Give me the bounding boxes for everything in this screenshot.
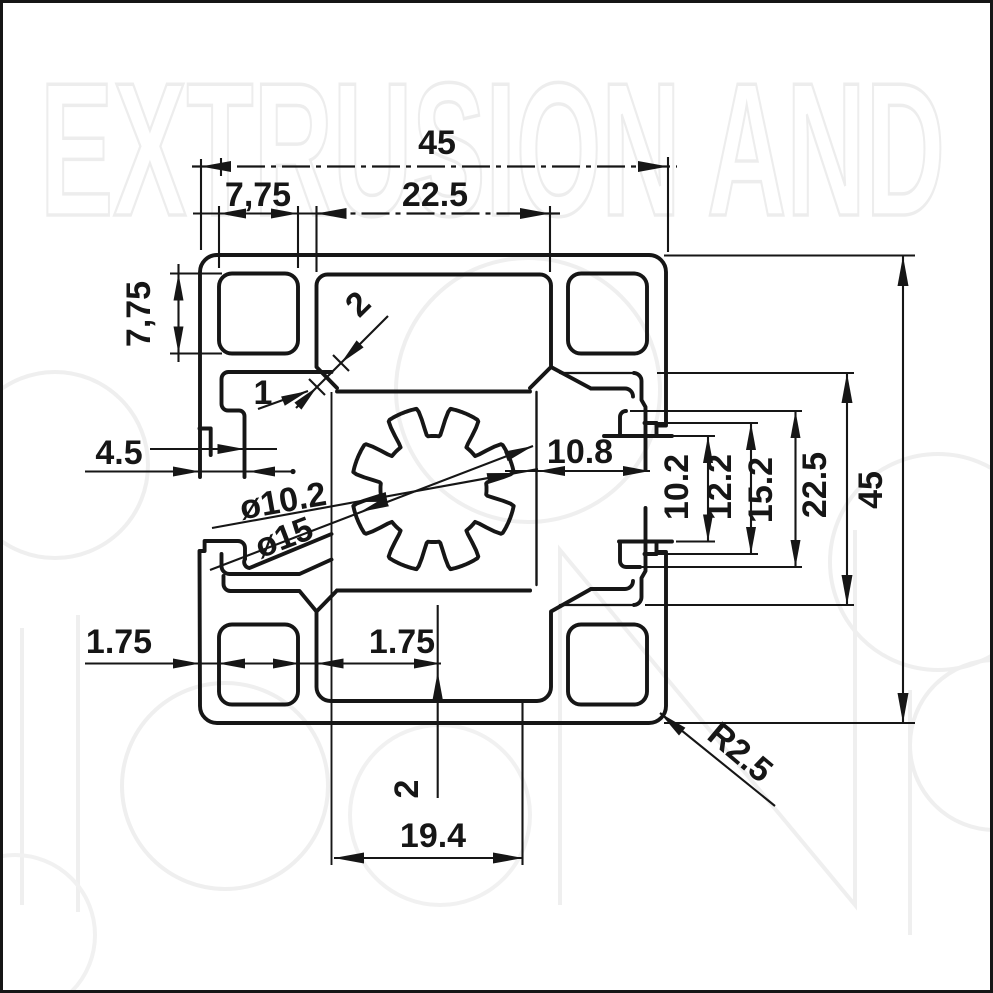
top-right core hole <box>568 274 647 354</box>
svg-text:45: 45 <box>852 471 890 509</box>
bottom-left core hole <box>219 625 298 705</box>
web wall right of gear <box>535 392 537 585</box>
cavity floor / web line <box>337 390 530 394</box>
dim 45 right <box>902 256 904 723</box>
svg-text:1.75: 1.75 <box>369 623 435 661</box>
dim 1 chamfer <box>258 391 308 409</box>
profile outer contour: top edge, right edge upper <box>217 255 666 436</box>
dim R2.5 leader <box>660 713 775 806</box>
left slot undercut lower boundary <box>222 554 332 574</box>
right slot mouth bottom lip line <box>619 542 672 555</box>
svg-text:4.5: 4.5 <box>95 434 142 472</box>
left slot undercut ramp <box>244 534 331 568</box>
svg-text:2: 2 <box>388 780 426 799</box>
dim 4.5 <box>150 448 277 450</box>
dim 7,75 top <box>193 212 316 214</box>
bottom-right core hole <box>568 625 647 705</box>
svg-text:10.8: 10.8 <box>547 433 613 471</box>
profile outer contour: left edge upper + top-left corner <box>200 255 217 477</box>
dim 15.2 right <box>794 411 796 567</box>
dim 7,75 left vertical <box>177 264 179 362</box>
top-left core hole <box>219 274 298 354</box>
right slot mouth top lip line <box>604 434 672 438</box>
dim 22.5 top <box>317 212 561 214</box>
dim 2 chamfer <box>296 316 388 408</box>
dim 2 bottom vertical <box>437 605 439 798</box>
dim 22.5 right <box>846 373 848 605</box>
right slot mouth upper wall <box>620 411 626 436</box>
svg-text:15.2: 15.2 <box>742 457 780 523</box>
bottom web line <box>337 589 530 593</box>
dim 10.8 <box>505 470 650 472</box>
dim dia10.2 leader <box>212 469 538 528</box>
bottom middle cavity <box>317 589 592 701</box>
svg-text:19.4: 19.4 <box>400 817 466 855</box>
dim 1.75 bottom <box>85 662 441 664</box>
dim 12.2 right <box>750 423 752 554</box>
svg-text:7,75: 7,75 <box>225 176 291 214</box>
dim 19.4 <box>334 857 523 859</box>
svg-text:12.2: 12.2 <box>701 454 739 520</box>
right slot mouth lower wall <box>620 543 640 568</box>
dim 10.2 right <box>707 436 709 542</box>
left slot hook outer face <box>224 576 317 612</box>
svg-text:22.5: 22.5 <box>402 176 468 214</box>
profile outer contour: right edge lower, bottom edge, left edge lower <box>200 541 667 723</box>
svg-text:45: 45 <box>418 124 456 162</box>
right cavity bottom edge <box>591 508 646 605</box>
right slot upper step <box>645 423 657 426</box>
svg-text:1: 1 <box>254 374 273 412</box>
top middle cavity <box>317 275 592 389</box>
svg-text:1.75: 1.75 <box>86 623 152 661</box>
svg-text:10.2: 10.2 <box>658 454 696 520</box>
left slot mouth top lip <box>200 429 211 456</box>
right cavity top edge <box>591 373 646 470</box>
svg-text:EXTRUSION AND: EXTRUSION AND <box>40 44 945 256</box>
svg-text:22.5: 22.5 <box>796 452 834 518</box>
central gear bore <box>353 409 513 569</box>
dim dia15 leader <box>210 446 533 570</box>
dim 45 top <box>192 165 677 167</box>
svg-text:7,75: 7,75 <box>120 281 158 347</box>
left pocket roof and inner wall <box>222 372 332 477</box>
